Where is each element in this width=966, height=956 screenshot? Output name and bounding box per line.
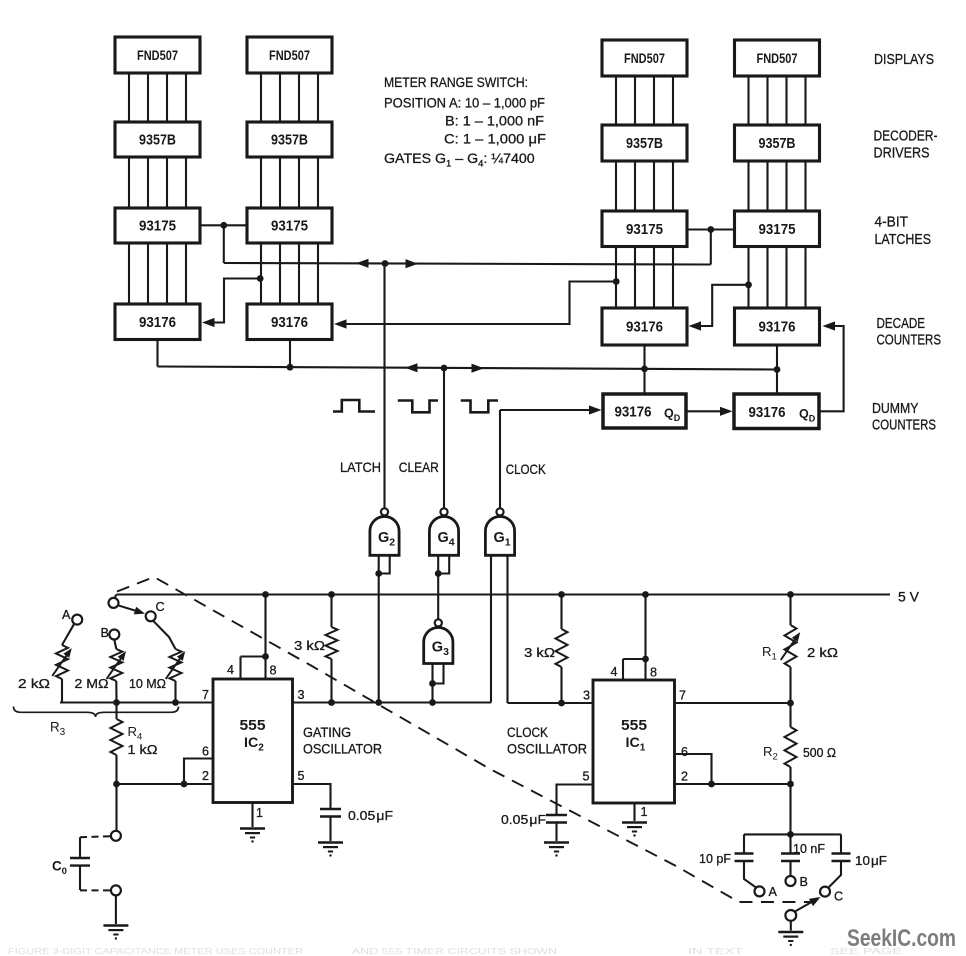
- wire IC1 pin7 line to R1/R2: [675, 702, 791, 704]
- capacitor 10 pF: [735, 834, 757, 887]
- wire bus 9357B to 93175 (decoder 2 column): [261, 157, 318, 208]
- terminal C (cap switch): [820, 887, 830, 897]
- svg-text:8: 8: [270, 664, 277, 678]
- IC 93176 (dummy counter 1) with QD output: [603, 394, 686, 428]
- wire R3 node line to IC2 pin 7: [60, 701, 213, 703]
- svg-text:LATCHES: LATCHES: [875, 232, 932, 248]
- svg-text:IN TEXT: IN TEXT: [688, 946, 743, 956]
- wire 5V supply rail: [117, 593, 891, 595]
- switch pole terminal (cap switch): [785, 910, 796, 921]
- svg-text:B: B: [800, 875, 808, 889]
- svg-text:FND507: FND507: [757, 51, 798, 66]
- IC 93175 (latch 4): [735, 211, 820, 247]
- svg-text:93176: 93176: [749, 405, 786, 421]
- node pin3 G2 junction: [375, 699, 382, 706]
- wire bus 9357B to 93175 (decoder 3 column): [616, 161, 673, 211]
- terminal A (range switch): [72, 615, 82, 625]
- svg-text:POSITION A: 10 – 1,000 pF: POSITION A: 10 – 1,000 pF: [384, 96, 545, 112]
- svg-text:7: 7: [202, 688, 209, 702]
- brace R3 group: [14, 707, 179, 718]
- svg-text:GATES G1 – G4: ¼7400: GATES G1 – G4: ¼7400: [384, 151, 535, 170]
- svg-text:B: 1 – 1,000 nF: B: 1 – 1,000 nF: [445, 114, 544, 130]
- IC FND507 (display 1): [115, 37, 200, 73]
- svg-text:8: 8: [650, 666, 657, 680]
- svg-text:3 kΩ: 3 kΩ: [294, 638, 325, 653]
- node cap bank junction: [787, 831, 794, 838]
- svg-text:METER RANGE SWITCH:: METER RANGE SWITCH:: [384, 75, 528, 91]
- node LATCH rail junction: [382, 260, 389, 267]
- IC 93176 (counter 3): [602, 308, 687, 345]
- wire IC1 pin3 input line: [508, 702, 594, 704]
- svg-text:10 MΩ: 10 MΩ: [129, 676, 166, 691]
- svg-text:0.05 μF: 0.05 μF: [348, 808, 393, 823]
- svg-text:2 kΩ: 2 kΩ: [18, 676, 50, 691]
- wire dashed Cx top link: [80, 836, 111, 837]
- IC 9357B (decoder 4): [735, 125, 820, 161]
- svg-text:2: 2: [202, 769, 209, 783]
- wire IC2 pin3 output line: [293, 701, 492, 703]
- wire IC1 pin1 to ground: [633, 803, 635, 821]
- svg-text:93176: 93176: [626, 320, 663, 336]
- wire G2 tied inputs stub to node: [375, 555, 389, 577]
- wire bus 9357B to 93175 (decoder 1 column): [129, 157, 186, 208]
- svg-text:3: 3: [583, 689, 590, 703]
- switch pole terminal (range switch): [109, 598, 119, 608]
- wire dummy1 to dummy2 with arrow: [686, 407, 733, 416]
- svg-text:4: 4: [227, 663, 234, 677]
- svg-text:3 kΩ: 3 kΩ: [524, 645, 555, 660]
- wire 93175 latch1 to latch2 link: [200, 224, 247, 226]
- svg-text:10 pF: 10 pF: [699, 851, 731, 866]
- terminal Cx top: [111, 831, 121, 841]
- svg-text:93176: 93176: [615, 405, 652, 421]
- node R3-R4 junction: [113, 699, 120, 706]
- wire G3 tied inputs stub to node: [429, 664, 443, 687]
- label R4 1 kOhm: [128, 724, 158, 757]
- svg-text:C: C: [834, 890, 843, 904]
- svg-text:93176: 93176: [271, 315, 308, 331]
- wire carry counter2 to counter1 with arrow: [202, 279, 260, 328]
- node R4 bottom junction: [113, 781, 120, 788]
- IC 93176 (counter 2): [247, 304, 332, 340]
- wire G1 right input to IC1 pin3 line: [506, 555, 508, 703]
- wire rail end to pole: [115, 595, 117, 599]
- wire R4 node down to Cx terminal: [115, 784, 117, 831]
- svg-text:9357B: 9357B: [139, 133, 176, 149]
- terminal Cx bottom: [111, 885, 121, 895]
- node R1-R2 junction: [787, 700, 794, 707]
- node R3-10M junction: [172, 699, 179, 706]
- node IC1 pin8 bridge: [642, 656, 649, 663]
- wire cap bank top bus: [744, 833, 841, 835]
- IC FND507 (display 2): [247, 37, 332, 73]
- resistor 3 kOhm (left): [326, 595, 338, 703]
- svg-text:DUMMY: DUMMY: [872, 401, 919, 417]
- svg-text:0.05 μF: 0.05 μF: [501, 812, 546, 827]
- resistor 2 kOhm (variable, position A): [52, 624, 74, 703]
- resistor R1 2 kOhm (variable): [781, 595, 803, 704]
- svg-text:9357B: 9357B: [759, 136, 796, 152]
- svg-text:10 nF: 10 nF: [793, 841, 825, 856]
- svg-text:4-BIT: 4-BIT: [875, 215, 909, 231]
- ground cap switch: [778, 932, 803, 946]
- svg-text:FND507: FND507: [269, 48, 310, 63]
- svg-text:DECADE: DECADE: [877, 316, 926, 332]
- wire R2 junction down to cap bank: [789, 784, 791, 834]
- nand gate G2 (latch): [370, 508, 399, 555]
- wire latch junction drop to LATCH rail: [223, 225, 225, 263]
- wire G4 tied inputs stub to node: [435, 555, 449, 577]
- faint cropped caption fragments: [8, 946, 903, 956]
- arrow latch rail left: [356, 259, 369, 268]
- capacitor 0.05uF (IC1 pin5): [546, 815, 567, 841]
- node pin3 3k-right junction: [558, 700, 565, 707]
- node R2 bottom junction: [787, 781, 794, 788]
- svg-text:SEE PAGE: SEE PAGE: [830, 946, 903, 956]
- terminal A (cap switch): [755, 886, 765, 896]
- wire latch junction drop right side: [710, 230, 712, 265]
- wire bus 93175 to 93176 (latch 1 column): [129, 243, 186, 304]
- switch arm pole to C with arrow: [118, 605, 146, 617]
- IC FND507 (display 4): [735, 40, 820, 76]
- svg-text:5: 5: [298, 769, 305, 783]
- node clear tap counter3: [641, 366, 648, 373]
- wire carry counter4-data to counter3 clock with arrow: [689, 285, 749, 331]
- node rail IC1 supply: [642, 591, 649, 598]
- resistor 10 MOhm (variable, position C): [153, 621, 188, 703]
- node rail IC2 supply: [262, 591, 269, 598]
- wire G2 input down to IC2 pin3 line: [378, 574, 380, 703]
- node rail 3k right: [558, 591, 565, 598]
- svg-text:93176: 93176: [139, 315, 176, 331]
- nand gate G4 (clear): [429, 508, 458, 555]
- wire G1 left input to IC2 pin3 line: [490, 555, 492, 702]
- node pin3 3k-left junction: [328, 699, 335, 706]
- terminal B (cap switch): [786, 876, 796, 886]
- svg-text:FND507: FND507: [624, 51, 665, 66]
- svg-text:6: 6: [202, 745, 209, 759]
- waveform latch positive pulse: [333, 400, 375, 412]
- ground 0.05uF right: [544, 843, 569, 857]
- IC 9357B (decoder 1): [115, 122, 200, 157]
- node pin2-pin6 junction IC1: [708, 781, 715, 788]
- node carry tap on counter2 data wire: [257, 275, 264, 282]
- svg-text:93175: 93175: [271, 219, 308, 235]
- svg-text:DRIVERS: DRIVERS: [874, 146, 930, 162]
- svg-text:93175: 93175: [626, 222, 663, 238]
- wire CLEAR vertical G4 output: [443, 368, 445, 508]
- svg-text:3: 3: [298, 688, 305, 702]
- wire IC2 pin5 to bypass cap: [293, 784, 331, 809]
- svg-text:93176: 93176: [759, 320, 796, 336]
- label CLOCK OSCILLATOR: [507, 725, 587, 757]
- resistor R2 500 Ohm: [785, 703, 797, 784]
- svg-text:93175: 93175: [759, 222, 796, 238]
- svg-text:CLOCK: CLOCK: [506, 462, 546, 477]
- svg-text:1: 1: [256, 806, 263, 820]
- IC 93176 (dummy counter 2) with QD output: [734, 394, 819, 429]
- label DECODER-DRIVERS: [874, 129, 938, 162]
- svg-text:10 μF: 10 μF: [855, 853, 887, 868]
- svg-text:9357B: 9357B: [271, 133, 308, 149]
- label DUMMY COUNTERS: [872, 401, 936, 434]
- wire G3 input down to IC2 pin3 line: [431, 684, 433, 703]
- wire CLOCK to dummy1 with arrow: [500, 405, 602, 414]
- svg-text:GATING: GATING: [303, 725, 351, 740]
- capacitor 10 uF: [829, 834, 851, 887]
- switch arm pole to C with arrow (cap switch): [795, 893, 823, 911]
- svg-text:FND507: FND507: [137, 48, 178, 63]
- wire LATCH vertical G2 output: [383, 264, 385, 509]
- nand gate G1 (clock): [485, 508, 514, 555]
- svg-text:555: 555: [240, 718, 266, 734]
- wire counter3 to dummy1 drop: [643, 345, 645, 394]
- IC 93175 (latch 3): [602, 211, 687, 247]
- svg-text:AND 555 TIMER CIRCUITS SHOW: AND 555 TIMER CIRCUITS SHOWN: [352, 946, 557, 956]
- dashed switch gang link line: [117, 577, 812, 902]
- IC 93176 (counter 1): [115, 304, 200, 340]
- wire bus FND507 to 9357B (display 4 column): [749, 76, 806, 125]
- wire IC1 pin2 line: [675, 783, 791, 785]
- ground IC1 pin1: [622, 823, 647, 837]
- svg-text:CLOCK: CLOCK: [507, 725, 548, 740]
- nand gate G3 (inverter): [424, 619, 453, 663]
- svg-text:COUNTERS: COUNTERS: [872, 418, 936, 434]
- svg-text:555: 555: [621, 718, 647, 734]
- arrow latch rail right: [406, 259, 419, 268]
- svg-text:2 MΩ: 2 MΩ: [75, 676, 109, 691]
- svg-text:4: 4: [611, 665, 618, 679]
- wire counter2 bottom drop: [289, 340, 291, 368]
- ground Cx: [103, 926, 128, 940]
- op-amp U IC2 555 timer box: [213, 679, 293, 803]
- label 4-BIT LATCHES: [875, 215, 932, 249]
- arrow clear rail left: [405, 363, 418, 372]
- resistor 3 kOhm (right): [556, 595, 568, 704]
- svg-text:DECODER-: DECODER-: [874, 129, 938, 145]
- ground 0.05uF left: [318, 843, 343, 857]
- resistor R4 1 kOhm: [111, 703, 123, 785]
- node CLEAR rail junction: [441, 365, 448, 372]
- label DECADE COUNTERS: [877, 316, 942, 349]
- IC 93176 (counter 4): [735, 308, 820, 345]
- svg-text:C: C: [156, 600, 165, 614]
- svg-text:CLEAR: CLEAR: [399, 460, 439, 475]
- wire bus FND507 to 9357B (display 1 column): [129, 73, 186, 122]
- capacitor 10 nF: [781, 834, 800, 876]
- wire CLEAR distribution rail: [158, 367, 778, 370]
- wire IC1 pin5 to bypass cap: [557, 785, 594, 816]
- svg-text:COUNTERS: COUNTERS: [877, 333, 942, 349]
- node pin2-pin6 junction: [181, 781, 188, 788]
- svg-text:5: 5: [583, 770, 590, 784]
- wire bus FND507 to 9357B (display 3 column): [616, 76, 673, 125]
- svg-text:1: 1: [641, 805, 648, 819]
- wire Cx bottom to ground: [115, 895, 117, 924]
- svg-text:500 Ω: 500 Ω: [803, 745, 836, 760]
- IC 93175 (latch 1): [115, 208, 200, 243]
- IC 9357B (decoder 2): [247, 122, 332, 157]
- svg-text:A: A: [62, 608, 71, 622]
- svg-text:LATCH: LATCH: [340, 460, 381, 475]
- node carry tap on counter3 data wire: [613, 278, 620, 285]
- wire carry counter3 to counter2 with arrow: [334, 282, 616, 329]
- wire counter4 to dummy2 drop: [776, 345, 778, 394]
- svg-text:A: A: [769, 885, 778, 899]
- node clear tap counter4: [774, 366, 781, 373]
- wire counter1 bottom drop: [156, 340, 158, 367]
- wire IC2 pin1 to ground: [251, 803, 253, 828]
- svg-text:6: 6: [681, 745, 688, 759]
- capacitor 0.05uF (IC2 pin5): [320, 809, 341, 841]
- note METER RANGE SWITCH text block: [384, 75, 546, 148]
- node clear tap counter2: [287, 364, 294, 371]
- ground IC2 pin1: [240, 829, 265, 843]
- node IC2 pin8 bridge: [262, 653, 269, 660]
- svg-text:DISPLAYS: DISPLAYS: [874, 52, 934, 68]
- wire bus 9357B to 93175 (decoder 4 column): [749, 161, 806, 211]
- terminal B (range switch): [109, 630, 119, 640]
- svg-text:FIGURE 3-DIGIT CAPACITANCE M: FIGURE 3-DIGIT CAPACITANCE METER USES CO…: [8, 946, 303, 956]
- svg-text:OSCILLATOR: OSCILLATOR: [303, 742, 382, 757]
- svg-text:7: 7: [679, 689, 686, 703]
- capacitor C0 (unknown capacitance): [70, 837, 90, 890]
- wire CLOCK vertical G1 output: [499, 410, 501, 508]
- svg-text:9357B: 9357B: [626, 136, 663, 152]
- node rail 3k left: [328, 591, 335, 598]
- wire bus 93175 to 93176 (latch 2 column): [261, 243, 318, 304]
- svg-text:C: 1 – 1,000 μF: C: 1 – 1,000 μF: [444, 132, 546, 148]
- wire LATCH distribution rail: [224, 263, 711, 265]
- IC 93175 (latch 2): [247, 208, 332, 243]
- IC FND507 (display 3): [602, 40, 687, 76]
- wire bus 93175 to 93176 (latch 4 column): [749, 247, 806, 309]
- svg-text:5 V: 5 V: [898, 590, 920, 606]
- svg-text:93175: 93175: [139, 219, 176, 235]
- wire bus 93175 to 93176 (latch 3 column): [616, 247, 673, 309]
- svg-text:OSCILLATOR: OSCILLATOR: [507, 742, 587, 757]
- arrow clear rail right: [472, 364, 485, 373]
- node junction latch3-latch4: [707, 226, 714, 233]
- wire bus FND507 to 9357B (display 2 column): [261, 73, 318, 122]
- svg-text:B: B: [101, 626, 109, 640]
- wire IC2 pin6 loop: [184, 759, 213, 785]
- resistor 2 MOhm (variable, position B): [107, 640, 129, 703]
- terminal C (range switch): [146, 611, 156, 621]
- svg-text:2: 2: [681, 770, 688, 784]
- svg-text:2 kΩ: 2 kΩ: [807, 645, 838, 660]
- wire IC2 pin2 line: [117, 783, 214, 785]
- wire dashed Cx bottom link: [80, 889, 110, 891]
- IC 9357B (decoder 3): [602, 125, 687, 161]
- wire 93175 latch3 to latch4 link: [686, 228, 734, 230]
- node pin3 G3 junction: [429, 699, 436, 706]
- svg-text:1 kΩ: 1 kΩ: [128, 742, 158, 757]
- wire dummy2 QD to counter4 clock with arrow: [819, 321, 844, 411]
- wire IC2 pins 4-8 bridge to rail: [241, 595, 266, 680]
- node rail R1: [787, 591, 794, 598]
- op-amp U IC1 555 timer box: [593, 680, 675, 803]
- node carry tap on counter4 data wire: [745, 281, 752, 288]
- label GATING OSCILLATOR: [303, 725, 382, 757]
- waveform clear negative pulse: [398, 401, 438, 413]
- node junction latch1-latch2: [220, 222, 227, 229]
- waveform clock negative pulse: [461, 401, 498, 413]
- wire cap switch pole to ground: [790, 921, 792, 931]
- wire G4 input down to G3 output bubble: [437, 574, 439, 619]
- wire IC1 pins 4-8 bridge to rail: [623, 595, 646, 681]
- wire IC1 pin6 loop: [675, 754, 712, 784]
